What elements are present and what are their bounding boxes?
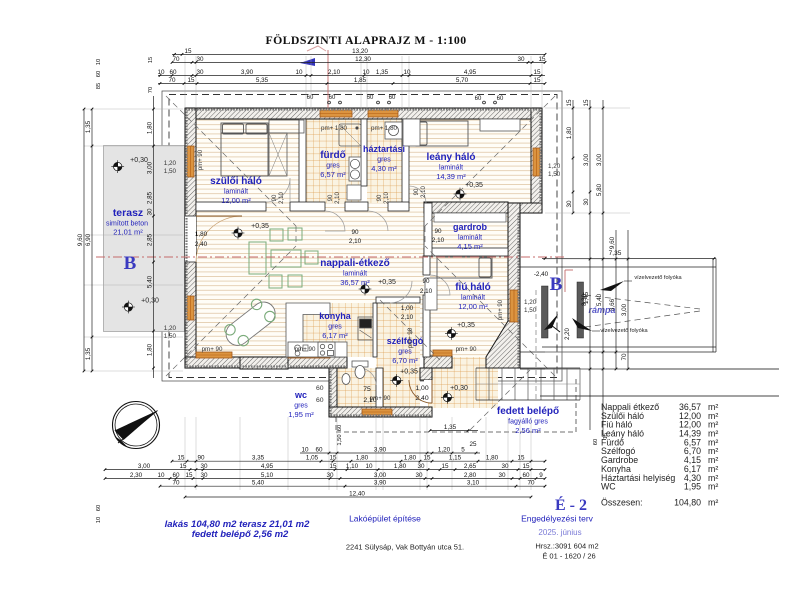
svg-text:2,10: 2,10 xyxy=(420,288,433,295)
kitchen counter xyxy=(286,303,330,357)
label konyha xyxy=(319,311,352,340)
svg-text:1,35: 1,35 xyxy=(376,69,389,76)
svg-text:2,10: 2,10 xyxy=(363,397,376,404)
svg-text:3,90: 3,90 xyxy=(241,69,254,76)
svg-text:15: 15 xyxy=(329,455,337,462)
svg-text:B: B xyxy=(550,274,563,295)
wardrobe leany xyxy=(403,119,420,146)
svg-text:fedett belépő: fedett belépő xyxy=(497,406,559,417)
floor leany halo xyxy=(409,119,531,203)
svg-text:5,70: 5,70 xyxy=(456,77,469,84)
svg-text:10: 10 xyxy=(295,69,303,76)
window wc south xyxy=(362,409,392,415)
wall wc block left xyxy=(329,368,337,417)
svg-text:fagyálló gres: fagyálló gres xyxy=(508,419,548,426)
bed fiu xyxy=(437,257,492,278)
svg-text:FÖLDSZINTI ALAPRAJZ M - 1:10: FÖLDSZINTI ALAPRAJZ M - 1:100 xyxy=(265,33,466,47)
svg-text:1,95 m²: 1,95 m² xyxy=(288,410,314,419)
partition szuloi-furdo xyxy=(299,119,306,203)
svg-text:90: 90 xyxy=(351,229,359,236)
svg-text:fedett belépő 2,56 m2: fedett belépő 2,56 m2 xyxy=(192,529,289,540)
area table xyxy=(601,402,718,492)
window szuloi west xyxy=(187,146,194,177)
svg-text:60: 60 xyxy=(329,95,336,101)
partition szelfogo top xyxy=(376,297,420,303)
ramp side bar upper xyxy=(542,286,549,338)
wall bottom right piece with chamfer xyxy=(486,321,520,368)
svg-text:6,70 m²: 6,70 m² xyxy=(392,356,418,365)
svg-text:1,10: 1,10 xyxy=(346,463,359,470)
svg-text:70: 70 xyxy=(168,77,176,84)
label fürdő xyxy=(320,150,346,179)
svg-text:1,80: 1,80 xyxy=(566,126,573,139)
svg-text:+0,30: +0,30 xyxy=(141,298,159,305)
svg-text:4,15 m²: 4,15 m² xyxy=(457,242,483,251)
svg-text:pm+ 90: pm+ 90 xyxy=(198,149,204,170)
svg-text:laminált: laminált xyxy=(343,271,367,278)
window szelfogo south xyxy=(433,350,452,356)
svg-text:15: 15 xyxy=(329,463,337,470)
svg-text:1,35: 1,35 xyxy=(85,120,92,133)
area table total xyxy=(601,498,718,508)
svg-text:4,30 m²: 4,30 m² xyxy=(371,164,397,173)
svg-text:1,50: 1,50 xyxy=(548,171,561,178)
shower furdo xyxy=(339,124,361,146)
svg-text:1,85: 1,85 xyxy=(354,77,367,84)
svg-text:1,80: 1,80 xyxy=(356,455,369,462)
svg-text:15: 15 xyxy=(423,455,431,462)
svg-text:12,00 m²: 12,00 m² xyxy=(458,302,488,311)
svg-text:7,35: 7,35 xyxy=(609,250,622,257)
wall bottom window pier xyxy=(240,357,288,369)
svg-text:90: 90 xyxy=(377,194,383,201)
label nappali-étkező xyxy=(320,258,389,287)
partition wc-szelfogo xyxy=(376,368,383,407)
window nappali south 1 xyxy=(196,352,232,358)
dim chain bottom row0 xyxy=(300,452,480,454)
svg-text:13,20: 13,20 xyxy=(352,48,368,55)
dining table xyxy=(221,297,279,350)
level marker nappali west xyxy=(232,227,245,240)
partition furdo bottom xyxy=(345,202,368,211)
wall insulation edge xyxy=(187,110,541,416)
svg-text:6,57 m²: 6,57 m² xyxy=(320,170,346,179)
svg-text:gres: gres xyxy=(328,324,342,331)
svg-text:fürdő: fürdő xyxy=(320,150,346,161)
svg-text:pm+ 90: pm+ 90 xyxy=(202,346,223,353)
window fiu east xyxy=(510,290,518,322)
svg-text:90: 90 xyxy=(272,194,278,201)
svg-text:gres: gres xyxy=(326,163,340,170)
svg-text:15: 15 xyxy=(177,455,185,462)
svg-text:1,20: 1,20 xyxy=(164,160,177,167)
svg-text:14,39 m²: 14,39 m² xyxy=(436,172,466,181)
svg-text:9,60: 9,60 xyxy=(77,233,84,246)
dim chain top row1 xyxy=(172,53,545,55)
svg-text:3,90: 3,90 xyxy=(374,480,387,487)
partition haztartasi-leany xyxy=(402,119,409,203)
svg-text:60: 60 xyxy=(522,472,530,479)
svg-text:2,40: 2,40 xyxy=(415,395,428,402)
terrace labels xyxy=(106,207,148,237)
floor gardrob xyxy=(432,213,508,248)
kitchen bottom counter xyxy=(288,342,347,357)
dim chain bottom row2 xyxy=(105,469,545,471)
label wc xyxy=(288,390,314,419)
level marker leany xyxy=(454,188,467,201)
floor fedett belepo pass xyxy=(452,357,486,368)
wall exterior top xyxy=(185,108,542,119)
svg-text:8,30: 8,30 xyxy=(582,294,588,306)
dim chain bottom row5 xyxy=(185,496,531,498)
svg-text:9,60: 9,60 xyxy=(609,236,616,249)
svg-text:30: 30 xyxy=(200,472,208,479)
partition fiu west upper xyxy=(423,256,430,275)
floor szelfogo xyxy=(376,303,420,407)
svg-text:gres: gres xyxy=(294,403,308,410)
svg-text:háztartási: háztartási xyxy=(363,144,405,154)
dim 1,35 entry xyxy=(430,430,478,432)
svg-text:5,35: 5,35 xyxy=(256,77,269,84)
svg-text:Engedélyezési terv: Engedélyezési terv xyxy=(521,514,594,524)
ramp slab xyxy=(520,259,716,353)
svg-text:+0,35: +0,35 xyxy=(378,279,396,286)
partition fiu west lower xyxy=(423,295,430,357)
svg-text:konyha: konyha xyxy=(319,311,352,321)
svg-text:60: 60 xyxy=(367,95,374,101)
svg-text:3,00: 3,00 xyxy=(374,472,387,479)
svg-text:É - 2: É - 2 xyxy=(555,495,587,514)
svg-text:30: 30 xyxy=(501,463,509,470)
svg-text:6,90: 6,90 xyxy=(85,233,92,246)
svg-text:1,80: 1,80 xyxy=(486,455,499,462)
entry steps xyxy=(476,368,580,400)
svg-text:B: B xyxy=(124,253,137,274)
label szélfogó xyxy=(387,336,424,365)
door furdo xyxy=(325,211,345,231)
svg-text:30: 30 xyxy=(566,200,573,208)
svg-text:70: 70 xyxy=(172,480,180,487)
svg-text:4,95: 4,95 xyxy=(261,463,274,470)
svg-text:3,00: 3,00 xyxy=(596,153,603,166)
svg-text:szülői háló: szülői háló xyxy=(210,176,262,187)
label háztartási xyxy=(363,144,405,173)
svg-text:+0,35: +0,35 xyxy=(251,223,269,230)
wardrobe fiu xyxy=(425,278,437,310)
svg-text:pm+ 1,80: pm+ 1,80 xyxy=(371,125,398,132)
ramp side bar lower xyxy=(577,282,584,338)
svg-text:30: 30 xyxy=(326,472,334,479)
svg-text:2,40: 2,40 xyxy=(195,241,208,248)
svg-text:70: 70 xyxy=(621,353,628,361)
wall exterior right mid xyxy=(508,203,520,368)
svg-text:3,00: 3,00 xyxy=(583,153,590,166)
dim chain right 2 xyxy=(589,100,591,430)
wall exterior bottom main xyxy=(185,357,347,368)
svg-text:90: 90 xyxy=(328,194,334,201)
svg-text:2,10: 2,10 xyxy=(432,237,445,244)
label fiú háló xyxy=(455,282,491,311)
svg-text:3,00: 3,00 xyxy=(147,161,154,174)
cabinet furdo xyxy=(347,185,361,200)
svg-text:70: 70 xyxy=(527,480,535,487)
dim chain left inner xyxy=(91,109,93,371)
svg-text:1,20: 1,20 xyxy=(524,299,537,306)
svg-text:+0,30: +0,30 xyxy=(450,385,468,392)
svg-text:90: 90 xyxy=(434,228,442,235)
svg-text:5,10: 5,10 xyxy=(261,472,274,479)
dim chain right 3 xyxy=(602,100,604,435)
bed leany xyxy=(416,121,468,146)
walkway line 2 xyxy=(540,395,779,397)
svg-text:nappali-étkező: nappali-étkező xyxy=(320,258,389,269)
level marker fedett belepo xyxy=(441,391,454,404)
dim chain right 5 xyxy=(627,230,629,369)
svg-text:85: 85 xyxy=(96,83,102,89)
roof hip lines xyxy=(166,96,555,430)
level marker szelfogo xyxy=(390,374,403,387)
svg-text:10: 10 xyxy=(96,517,102,523)
svg-text:9: 9 xyxy=(539,472,543,479)
partition szuloi bottom east xyxy=(290,202,325,211)
interior door dims xyxy=(164,95,561,404)
svg-text:90: 90 xyxy=(414,188,420,195)
svg-text:2,85: 2,85 xyxy=(147,233,154,246)
svg-text:2025. június: 2025. június xyxy=(538,528,581,537)
label leány háló xyxy=(427,152,476,181)
svg-text:70: 70 xyxy=(172,56,180,63)
svg-text:15: 15 xyxy=(538,56,546,63)
svg-text:60: 60 xyxy=(316,397,324,404)
partition furdo-haztartasi xyxy=(361,119,367,186)
svg-text:12,40: 12,40 xyxy=(349,490,365,497)
shelf gardrob xyxy=(434,213,506,222)
svg-text:Lakóépület építése: Lakóépület építése xyxy=(349,514,421,524)
dimension guide lines xyxy=(84,56,630,490)
svg-text:10: 10 xyxy=(157,472,165,479)
dim chain bottom row4 xyxy=(160,485,545,487)
svg-text:60: 60 xyxy=(96,505,102,511)
svg-text:2,30: 2,30 xyxy=(130,472,143,479)
svg-text:60: 60 xyxy=(169,69,177,76)
svg-text:+0,35: +0,35 xyxy=(457,322,475,329)
svg-text:1,50: 1,50 xyxy=(164,168,177,175)
dining chairs xyxy=(225,299,275,346)
window konyha south xyxy=(288,352,330,358)
svg-text:1,50: 1,50 xyxy=(337,434,343,445)
svg-text:Összesen:: Összesen: xyxy=(601,498,643,508)
partition gardrob bottom xyxy=(424,248,508,256)
svg-text:70: 70 xyxy=(148,87,154,93)
svg-text:90: 90 xyxy=(197,455,205,462)
svg-text:laminált: laminált xyxy=(224,189,248,196)
wall step leany xyxy=(508,203,542,213)
svg-text:12,30: 12,30 xyxy=(355,56,371,63)
svg-text:vízelvezető folyóka: vízelvezető folyóka xyxy=(600,328,648,334)
floor fedett belepo xyxy=(428,368,498,408)
svg-text:15: 15 xyxy=(179,463,187,470)
svg-text:2,10: 2,10 xyxy=(328,69,341,76)
svg-text:3,10: 3,10 xyxy=(467,480,480,487)
svg-text:2,56 m²: 2,56 m² xyxy=(515,426,541,435)
svg-text:10: 10 xyxy=(403,69,411,76)
svg-text:2,10: 2,10 xyxy=(279,192,285,204)
svg-text:2,10: 2,10 xyxy=(401,314,414,321)
floor konyha xyxy=(286,303,374,357)
svg-text:30: 30 xyxy=(196,56,204,63)
door szelfogo-nappali xyxy=(390,281,412,303)
svg-text:3,66: 3,66 xyxy=(609,298,616,311)
svg-text:15: 15 xyxy=(566,99,573,107)
svg-text:60: 60 xyxy=(389,95,396,101)
roof eave outline xyxy=(162,91,562,381)
door haztartasi xyxy=(368,211,388,231)
svg-text:5,40: 5,40 xyxy=(147,275,154,288)
svg-text:1,80: 1,80 xyxy=(147,121,154,134)
dim chain right 1 xyxy=(572,100,574,213)
wardrobe szuloi xyxy=(269,120,304,176)
svg-text:pm+ 1,80: pm+ 1,80 xyxy=(321,125,348,132)
svg-text:30: 30 xyxy=(417,463,425,470)
svg-text:10: 10 xyxy=(96,59,102,65)
wall szelfogo right lower xyxy=(420,368,432,380)
svg-text:30: 30 xyxy=(415,472,423,479)
dim chain left outer xyxy=(83,109,85,371)
svg-text:10: 10 xyxy=(362,69,370,76)
svg-text:2,10: 2,10 xyxy=(335,192,341,204)
svg-text:36,57 m²: 36,57 m² xyxy=(340,278,370,287)
svg-text:3,90: 3,90 xyxy=(374,446,387,453)
svg-text:1,00: 1,00 xyxy=(415,385,428,392)
svg-text:15: 15 xyxy=(533,69,541,76)
svg-text:15: 15 xyxy=(148,57,154,63)
svg-text:15: 15 xyxy=(184,48,192,55)
svg-text:laminált: laminált xyxy=(439,165,463,172)
wall gardrob top xyxy=(424,202,508,213)
terrace level marker bottom xyxy=(122,301,135,314)
section line B-B xyxy=(96,256,566,258)
svg-text:m²: m² xyxy=(708,498,718,508)
wall bottom szelfogo left piece xyxy=(424,356,452,368)
svg-text:2,20: 2,20 xyxy=(565,328,571,340)
section mark right xyxy=(564,270,566,292)
svg-text:15: 15 xyxy=(583,99,590,107)
svg-text:gres: gres xyxy=(377,157,391,164)
svg-text:2,80: 2,80 xyxy=(464,472,477,479)
svg-text:1,20: 1,20 xyxy=(164,325,177,332)
sofa set nappali xyxy=(249,228,318,288)
svg-text:30: 30 xyxy=(583,198,590,206)
partition nappali-gardrob xyxy=(424,203,432,256)
svg-text:30: 30 xyxy=(517,56,525,63)
svg-text:1,20: 1,20 xyxy=(548,163,561,170)
svg-text:1,15: 1,15 xyxy=(449,455,462,462)
svg-text:2241 Sülysáp, Vak Bottyán utca: 2241 Sülysáp, Vak Bottyán utca 51. xyxy=(346,543,464,552)
svg-text:15: 15 xyxy=(441,463,449,470)
svg-text:5,40: 5,40 xyxy=(596,293,603,306)
svg-text:1,50: 1,50 xyxy=(164,333,177,340)
level marker fiu xyxy=(445,327,458,340)
compass rose xyxy=(113,402,160,449)
svg-text:10: 10 xyxy=(157,69,165,76)
svg-text:pm+ 90: pm+ 90 xyxy=(456,346,477,353)
svg-text:2,10: 2,10 xyxy=(421,186,427,198)
partition szuloi bottom west xyxy=(196,202,266,211)
svg-text:60: 60 xyxy=(337,425,343,431)
svg-text:vízelvezető folyóka: vízelvezető folyóka xyxy=(634,275,682,281)
dim chain right 4 xyxy=(615,230,617,369)
svg-text:laminált: laminált xyxy=(458,235,482,242)
dim chain left eave xyxy=(153,96,155,378)
door wc xyxy=(359,368,376,385)
svg-text:+0,30: +0,30 xyxy=(130,157,148,164)
ramp slope dashes xyxy=(585,295,700,327)
dim chain bottom row3 xyxy=(105,478,545,480)
washbasin wc xyxy=(342,374,350,385)
svg-text:4,95: 4,95 xyxy=(464,69,477,76)
svg-text:laminált: laminált xyxy=(461,295,485,302)
stove xyxy=(318,342,335,357)
label fedett belépő xyxy=(497,406,559,435)
wall exterior right upper xyxy=(531,108,542,213)
svg-text:2,10: 2,10 xyxy=(384,192,390,204)
svg-text:104,80: 104,80 xyxy=(674,498,701,508)
svg-text:90: 90 xyxy=(422,278,430,285)
svg-text:60: 60 xyxy=(315,446,323,453)
svg-text:1,20: 1,20 xyxy=(438,446,451,453)
svg-text:1,80: 1,80 xyxy=(394,463,407,470)
svg-text:fiú háló: fiú háló xyxy=(455,282,491,293)
roof eave outline entry extension xyxy=(336,378,576,432)
wall wc block bottom xyxy=(329,407,432,417)
window leany east xyxy=(533,148,540,176)
svg-text:10: 10 xyxy=(301,446,309,453)
svg-text:+0,35: +0,35 xyxy=(465,182,483,189)
svg-text:15: 15 xyxy=(522,463,530,470)
svg-text:15: 15 xyxy=(187,77,195,84)
svg-text:simított beton: simított beton xyxy=(106,221,148,228)
svg-text:60: 60 xyxy=(497,96,504,102)
svg-text:5,40: 5,40 xyxy=(252,480,265,487)
door terrace opening xyxy=(185,216,196,262)
door leany xyxy=(409,186,426,203)
partition haztartasi bottom xyxy=(388,202,409,211)
bed szuloi xyxy=(221,123,268,176)
svg-text:6,17 m²: 6,17 m² xyxy=(322,331,348,340)
svg-text:30: 30 xyxy=(196,69,204,76)
floor szuloi halo xyxy=(196,119,299,203)
floor wc xyxy=(337,368,376,407)
section mark top xyxy=(307,46,326,51)
washer haztartasi xyxy=(385,122,402,139)
svg-text:15: 15 xyxy=(517,455,525,462)
svg-text:É 01 - 1620 / 26: É 01 - 1620 / 26 xyxy=(542,552,595,561)
svg-text:5: 5 xyxy=(461,446,465,453)
label szülői háló xyxy=(210,176,262,205)
svg-text:1,05: 1,05 xyxy=(306,455,319,462)
svg-text:60: 60 xyxy=(593,439,599,445)
svg-text:terasz: terasz xyxy=(113,207,143,219)
floor fiu halo xyxy=(430,256,508,357)
door entry xyxy=(424,380,432,403)
svg-text:10: 10 xyxy=(365,463,373,470)
svg-text:15: 15 xyxy=(185,472,193,479)
svg-text:+0,35: +0,35 xyxy=(400,369,418,376)
svg-text:3,35: 3,35 xyxy=(252,455,265,462)
svg-text:1,00: 1,00 xyxy=(401,305,414,312)
svg-text:25: 25 xyxy=(469,441,477,448)
floor haztartasi xyxy=(367,119,402,203)
